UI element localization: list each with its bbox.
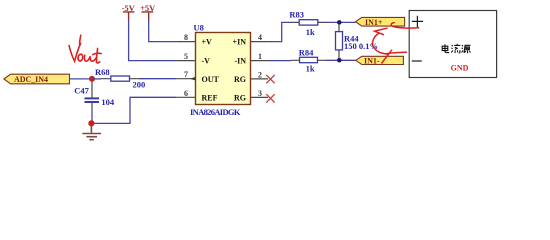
svg-text:RG: RG [234, 93, 246, 102]
svg-text:1k: 1k [306, 64, 315, 74]
wire junction to R68 [92, 78, 101, 80]
svg-text:+V: +V [202, 38, 213, 47]
wire ADC_IN4 to junction [70, 78, 93, 80]
handwritten arrow from + to IN1+ [373, 23, 419, 63]
svg-text:RG: RG [234, 75, 246, 84]
svg-text:C47: C47 [74, 86, 89, 96]
junction at R44 top [337, 20, 342, 25]
connector IN1+ [356, 17, 405, 26]
handwritten Vout annotation [69, 35, 101, 63]
svg-text:5: 5 [184, 52, 188, 61]
wire pin 4 up to R83 row [268, 22, 291, 41]
svg-text:U8: U8 [194, 23, 204, 33]
minus terminal [412, 60, 422, 62]
junction at R44 bottom [337, 58, 342, 63]
wire R83 to IN1+ [327, 21, 356, 23]
junction (red) at node Vout [89, 76, 95, 82]
plus terminal [412, 16, 423, 27]
svg-text:1: 1 [258, 52, 262, 61]
svg-text:ADC_IN4: ADC_IN4 [14, 75, 48, 84]
svg-text:REF: REF [202, 93, 218, 102]
svg-text:-IN: -IN [234, 57, 246, 66]
svg-text:OUT: OUT [202, 75, 220, 84]
wire R84 to IN1- [326, 59, 356, 61]
capacitor C47 [74, 82, 115, 111]
ground [82, 126, 101, 140]
wire +5V to pin 8 [149, 20, 177, 42]
junction (red) at ground node [88, 120, 94, 126]
power port +5V [140, 3, 156, 20]
resistor R83 [289, 9, 326, 37]
handwritten arrow from curve down to IN1- [373, 33, 389, 54]
label 电流源 (current source) drawn glyphs [442, 44, 470, 53]
svg-text:8: 8 [184, 33, 188, 42]
svg-text:INA826AIDGK: INA826AIDGK [190, 107, 241, 117]
wire C47 to ground junction [91, 110, 93, 123]
svg-text:IN1-: IN1- [364, 56, 380, 65]
svg-text:R84: R84 [299, 48, 314, 58]
svg-text:6: 6 [184, 89, 188, 98]
svg-text:7: 7 [184, 70, 188, 79]
wire REF return: junction to pin 6 [92, 97, 177, 123]
resistor R68 [95, 67, 145, 90]
svg-text:3: 3 [258, 89, 262, 98]
svg-text:2: 2 [258, 70, 262, 79]
wire R68 to pin 7 [139, 78, 176, 80]
svg-text:R83: R83 [289, 9, 304, 19]
svg-text:104: 104 [101, 97, 115, 107]
no-connect X on pin 2 [266, 75, 274, 83]
power port -5V [122, 3, 136, 20]
wire pin 1 to R84 [268, 60, 291, 62]
op-amp U8 (INA826AIDGK) [176, 23, 268, 117]
svg-text:IN1+: IN1+ [365, 18, 383, 27]
svg-text:R68: R68 [95, 67, 110, 77]
svg-text:GND: GND [451, 63, 469, 72]
svg-text:4: 4 [258, 33, 262, 42]
resistor R84 [291, 48, 326, 74]
current source box [409, 11, 496, 78]
svg-text:1k: 1k [306, 27, 315, 37]
connector ADC_IN4 [4, 74, 70, 84]
svg-text:+IN: +IN [233, 38, 247, 47]
wire -5V to pin 5 [129, 20, 177, 61]
svg-text:-V: -V [202, 57, 211, 66]
resistor R44 [336, 24, 379, 59]
svg-text:200: 200 [133, 80, 146, 90]
connector IN1- [356, 56, 404, 65]
no-connect X on pin 3 [266, 94, 274, 102]
